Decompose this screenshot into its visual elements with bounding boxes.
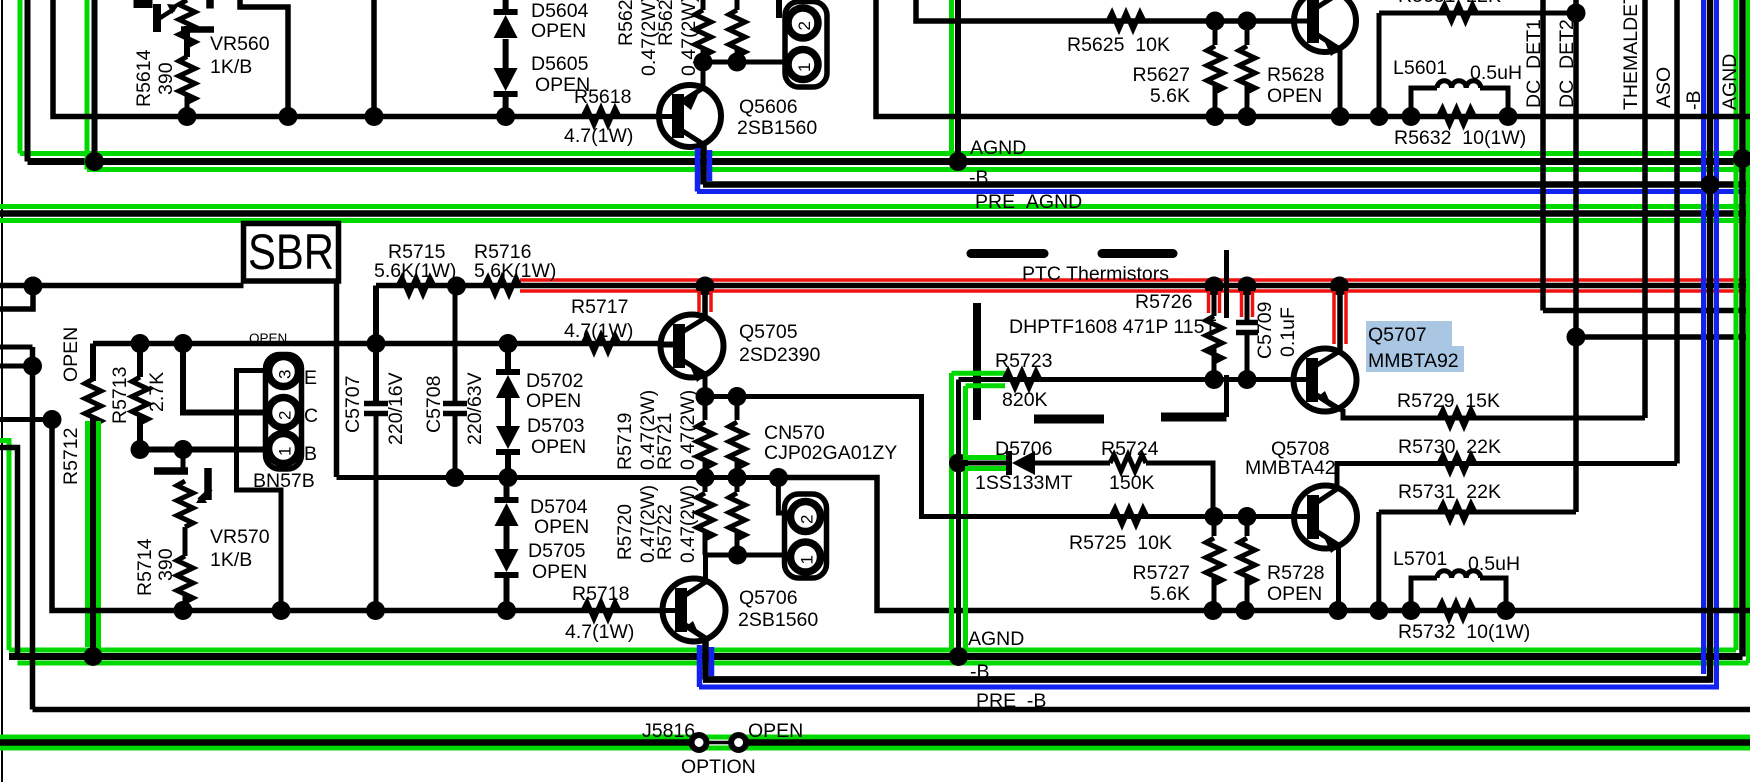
svg-text:1: 1: [795, 63, 814, 72]
svg-text:AGND: AGND: [1719, 54, 1741, 110]
wire emitter rail y396.5: [705, 397, 1295, 517]
svg-text:CJP02GA01ZY: CJP02GA01ZY: [764, 442, 897, 464]
net AGND bottom bus (green/black/green): [9, 648, 1736, 653]
svg-text:R5714: R5714: [134, 538, 156, 596]
resistor R5725: [940, 514, 1112, 519]
net AGND right vertical (green/black/green): [1734, 0, 1739, 650]
svg-text:D5604: D5604: [531, 0, 589, 22]
svg-text:R5614: R5614: [133, 49, 155, 107]
resistor R5722: [735, 478, 740, 493]
resistor R5717: [583, 336, 619, 352]
resistor R5732: [1438, 603, 1474, 619]
wire left stub y417: [0, 417, 52, 422]
connector BN57B 3-pin: [266, 355, 302, 470]
svg-text:D5702: D5702: [526, 370, 583, 392]
svg-text:5.6K: 5.6K: [1150, 85, 1190, 107]
node R5713 top: [131, 334, 150, 353]
transistor Q5705 2SD2390: [661, 315, 724, 378]
wire -B black vertical-to-bottom corner: [703, 0, 1710, 680]
wire VR560 wiper bar: [153, 4, 161, 32]
svg-text:E: E: [304, 367, 317, 389]
svg-text:OPEN: OPEN: [531, 436, 586, 458]
wire mid rail y477.5: [337, 475, 779, 480]
node DC_DET2/R5631 junction: [1567, 4, 1586, 23]
resistor R5723: [1004, 372, 1040, 388]
node D5705/trunk: [497, 601, 516, 620]
svg-text:D5703: D5703: [527, 415, 584, 437]
wire CN570 pin2 branch: [778, 478, 789, 514]
wire Q5705 base bar: [673, 324, 685, 368]
diode D5705: [495, 549, 519, 572]
svg-text:R5730 22K: R5730 22K: [1398, 436, 1501, 458]
svg-text:1: 1: [798, 555, 817, 564]
svg-text:R5719: R5719: [614, 413, 636, 470]
resistor R5631 rail: [1379, 11, 1576, 16]
capacitor C5708: [453, 286, 458, 401]
resistor R5625: [1108, 13, 1144, 29]
svg-text:-B: -B: [969, 167, 989, 189]
net PRE_AGND bus (green/black/green): [0, 204, 1750, 209]
node R5628 top: [1238, 12, 1257, 31]
net -B right vertical (blue/black/blue): [1701, 0, 1706, 674]
diode D5702: [505, 344, 511, 376]
wire AGND left stub (black): [0, 448, 18, 657]
wire D5604-D5605: [503, 39, 509, 68]
svg-text:D5704: D5704: [530, 496, 588, 518]
wire Q5706 emitter diagonal up: [681, 582, 706, 598]
svg-text:OPTION: OPTION: [681, 756, 756, 778]
net DC_DET2 vertical: [1573, 0, 1579, 512]
schematic frame border left: [1, 0, 3, 782]
transistor Q5708 MMBTA42: [1294, 486, 1357, 549]
capacitor C5707: [373, 286, 379, 402]
svg-text:DC_DET1: DC_DET1: [1523, 19, 1545, 108]
svg-text:OPEN: OPEN: [1267, 85, 1322, 107]
resistor R5718: [583, 603, 619, 619]
svg-text:DC_DET2: DC_DET2: [1556, 19, 1578, 108]
potentiometer VR560: [179, 0, 195, 46]
node R5713/pinB: [131, 440, 150, 459]
wire Q5706 collector down to -B bottom: [702, 636, 709, 680]
wire -B blue highlight at Q5706: [697, 645, 703, 687]
svg-text:0.47(2W): 0.47(2W): [677, 390, 699, 470]
resistor R5729: [1439, 410, 1475, 426]
resistor R5730: [1439, 456, 1475, 472]
svg-text:R5718: R5718: [572, 583, 629, 605]
wire branch box upper: [240, 0, 288, 117]
node R5627 bottom: [1206, 107, 1225, 126]
svg-text:L5701: L5701: [1393, 548, 1447, 570]
svg-text:5.6K: 5.6K: [1150, 583, 1190, 605]
node L5601 right: [1499, 107, 1518, 126]
diode D5703: [496, 426, 520, 449]
node C5707/trunk: [366, 601, 385, 620]
capacitor C5709: [1245, 286, 1250, 320]
wire AGND top-mid vertical (green+black): [949, 0, 954, 154]
wire Q5707 base rail with AGND-green drop: [959, 377, 1295, 382]
resistor R5719: [703, 397, 708, 421]
node rail/Q5707: [1330, 277, 1349, 296]
wire SBR box drop: [334, 281, 340, 477]
svg-text:Q5705: Q5705: [739, 321, 798, 343]
node emitter/trunk: [1331, 107, 1350, 126]
svg-text:2: 2: [795, 21, 814, 30]
wire DC_DET2 branch to right edge: [1576, 334, 1750, 340]
node R5731/trunk: [1369, 601, 1388, 620]
svg-text:CN570: CN570: [764, 422, 825, 444]
node VR570 top: [174, 440, 193, 459]
node R5728 top: [1238, 507, 1257, 526]
svg-text:C: C: [304, 405, 318, 427]
PTC thermistor bar B: [1102, 249, 1173, 258]
svg-text:C5708: C5708: [423, 376, 445, 433]
wire AGND top-left vertical pair 2: [85, 0, 90, 170]
node stub2 junction: [43, 410, 62, 429]
net PTC thermistor rail (black with red highlight): [0, 283, 244, 289]
connector top 2-pin: [785, 2, 827, 88]
wire -B blue highlight at Q5606: [695, 148, 701, 192]
node R5727 top: [1205, 507, 1224, 526]
node AGND top-left junction: [85, 152, 104, 171]
svg-text:2: 2: [798, 515, 817, 524]
svg-text:R5628: R5628: [1267, 64, 1324, 86]
wire VR560 top bar: [134, 0, 153, 8]
node C5707 top: [367, 334, 386, 353]
wire VR570 to R5714: [183, 527, 188, 556]
svg-text:390: 390: [155, 548, 177, 581]
svg-text:R5727: R5727: [1133, 562, 1190, 584]
svg-text:2: 2: [276, 411, 295, 420]
wire VR560 to R5614: [184, 26, 190, 57]
svg-text:R5631 22K: R5631 22K: [1398, 0, 1501, 7]
svg-text:R5720: R5720: [615, 504, 636, 560]
node trunk/branch2: [365, 107, 384, 126]
svg-text:R5721: R5721: [654, 413, 676, 470]
node D5703/mid rail: [499, 468, 518, 487]
PTC thermistor foot E: [1161, 413, 1227, 422]
resistor R5614: [179, 57, 195, 103]
svg-text:OPEN: OPEN: [60, 327, 82, 382]
wire top trunk: [53, 0, 661, 117]
svg-text:R5625 10K: R5625 10K: [1067, 34, 1170, 56]
wire Q5606 collector down to -B: [700, 142, 707, 185]
svg-text:5.6K(1W): 5.6K(1W): [474, 260, 556, 282]
inductor L5601: [1411, 88, 1437, 117]
wire Q5604 emitter down: [1338, 46, 1343, 117]
svg-text:1K/B: 1K/B: [210, 549, 252, 571]
node R5628 bottom: [1238, 107, 1257, 126]
svg-text:R5712: R5712: [60, 428, 82, 485]
svg-text:2SB1560: 2SB1560: [737, 117, 817, 139]
svg-text:D5706: D5706: [995, 438, 1052, 460]
svg-text:BN57B: BN57B: [253, 470, 315, 492]
wire Q5705 emitter down: [703, 374, 708, 397]
wire AGND top-left vertical pair 1: [18, 0, 23, 154]
wire Q5606 emitter diagonal: [678, 88, 703, 104]
svg-text:R5726: R5726: [1135, 291, 1192, 313]
wire R5712 to AGND (green highlighted): [85, 421, 90, 647]
wire Q5708 collector to ASO: [1337, 464, 1677, 492]
node rail/R5726: [1205, 277, 1224, 296]
resistor R5715: [398, 278, 434, 294]
transistor Q5604 top right: [1294, 0, 1356, 52]
transistor Q5707 MMBTA92: [1366, 321, 1452, 346]
node R5719 top: [696, 387, 715, 406]
node R5721 top: [728, 387, 747, 406]
wire into top connector pin2: [776, 0, 782, 18]
svg-text:2SD2390: 2SD2390: [739, 344, 820, 366]
svg-text:R5731 22K: R5731 22K: [1398, 481, 1501, 503]
resistor R5712 OPEN: [90, 344, 96, 382]
wire top trunk right segment: [876, 0, 1750, 117]
svg-text:0.47(2W): 0.47(2W): [678, 0, 700, 76]
wire CN570 pin1 rail: [705, 553, 789, 558]
wire R5625 rail: [916, 0, 1295, 21]
svg-text:-B: -B: [970, 661, 990, 683]
thermistor R5726: [1212, 286, 1217, 316]
svg-text:D5705: D5705: [528, 540, 586, 562]
wire Q5706 base bar: [675, 588, 687, 632]
svg-text:R5722: R5722: [655, 504, 676, 560]
wire BN57B pin C branch: [183, 344, 267, 413]
wire vertical branch x374: [371, 0, 377, 117]
node R5715/R5716/C5708: [447, 277, 466, 296]
wire mid rail corner to bottom trunk right: [778, 478, 1750, 611]
wire left stub pair y347/y366: [0, 345, 33, 350]
svg-text:OPEN: OPEN: [532, 561, 587, 583]
node R5726/base rail: [1205, 370, 1224, 389]
node -B junction top: [1701, 175, 1720, 194]
resistor R5716: [484, 278, 520, 294]
wire Q5707 collector to PTC rail (red highlight): [1337, 286, 1343, 352]
svg-text:3: 3: [276, 370, 295, 379]
wire D5704-D5705: [504, 526, 510, 549]
svg-text:R5713: R5713: [109, 367, 131, 424]
resistor R5713: [137, 344, 143, 378]
svg-text:PRE AGND: PRE AGND: [975, 191, 1082, 213]
wire BN57B pin B rail: [136, 447, 267, 453]
wire green highlight right: [963, 386, 968, 650]
svg-text:R5620: R5620: [615, 0, 637, 46]
svg-text:D5605: D5605: [531, 53, 589, 75]
node R5719 bottom: [696, 468, 715, 487]
node R5620/emitter: [694, 53, 713, 72]
net DC_DET1 vertical: [1540, 0, 1546, 311]
inductor L5701: [1411, 578, 1437, 611]
svg-text:OPEN: OPEN: [534, 516, 589, 538]
wire Q5707 emitter diagonal: [1312, 392, 1343, 411]
svg-text:C5709: C5709: [1254, 302, 1276, 359]
svg-text:2SB1560: 2SB1560: [738, 609, 818, 631]
svg-text:AGND: AGND: [968, 628, 1024, 650]
svg-text:MMBTA92: MMBTA92: [1368, 350, 1459, 372]
svg-text:VR570: VR570: [210, 526, 270, 548]
node CN570 pin2 branch: [769, 468, 788, 487]
wire Q5604 base bar: [1307, 0, 1319, 43]
transistor Q5606 2SB1560: [659, 85, 721, 147]
wire Q5705 emitter diagonal: [679, 358, 705, 374]
svg-text:AGND: AGND: [970, 137, 1026, 159]
svg-text:PTC Thermistors: PTC Thermistors: [1022, 263, 1169, 285]
svg-text:R5632 10(1W): R5632 10(1W): [1394, 127, 1526, 149]
svg-text:B: B: [304, 443, 317, 465]
wire Q5606 emitter up: [701, 62, 706, 90]
wire Q5708 collector diagonal: [1313, 489, 1337, 505]
svg-text:1SS133MT: 1SS133MT: [975, 472, 1073, 494]
svg-text:0.5uH: 0.5uH: [1468, 553, 1520, 575]
svg-text:ASO: ASO: [1653, 67, 1675, 108]
svg-text:R5725 10K: R5725 10K: [1069, 532, 1172, 554]
svg-text:OPEN: OPEN: [526, 390, 581, 412]
transistor Q5706 2SB1560: [663, 579, 726, 642]
node R5625/R5627: [1206, 12, 1225, 31]
connector CN570 2-pin: [785, 494, 827, 578]
wire D5702-D5703: [505, 398, 511, 426]
svg-text:1: 1: [276, 447, 295, 456]
net ASO vertical: [1674, 0, 1680, 464]
wire Q5707 emitter to THEMALDET: [1343, 409, 1645, 418]
wire emitter rail y62: [703, 60, 789, 65]
svg-text:0.5uH: 0.5uH: [1470, 62, 1522, 84]
node C5708/mid rail: [446, 468, 465, 487]
resistor R5714: [177, 556, 193, 602]
svg-text:J5816: J5816: [642, 720, 695, 742]
wire AGND left stub (green): [0, 441, 9, 651]
svg-text:OPEN: OPEN: [1267, 583, 1322, 605]
resistor R5631: [1441, 5, 1477, 21]
node rail left junction: [24, 277, 43, 296]
wire Q5707 collector diagonal: [1312, 351, 1340, 368]
node R5722/pin1: [728, 546, 747, 565]
svg-text:R5732 10(1W): R5732 10(1W): [1398, 621, 1530, 643]
node D5702 top: [499, 334, 518, 353]
node L5701 left: [1402, 601, 1421, 620]
svg-text:VR560: VR560: [210, 33, 270, 55]
svg-text:220/63V: 220/63V: [464, 372, 486, 445]
net -B top bus (black + blue): [703, 181, 1750, 188]
node L5701 right: [1497, 601, 1516, 620]
block SBR label box: [244, 224, 339, 282]
svg-text:R5724: R5724: [1101, 438, 1159, 460]
resistor R5620: [701, 0, 706, 10]
svg-text:220/16V: 220/16V: [385, 372, 407, 445]
resistor R5731: [1379, 510, 1576, 515]
node AGND top-mid junction: [949, 152, 968, 171]
svg-text:-B: -B: [1683, 91, 1705, 111]
svg-text:0.47(2W): 0.47(2W): [678, 485, 699, 563]
diode D5706 1SS133MT: [1012, 451, 1035, 475]
svg-text:0.1uF: 0.1uF: [1277, 307, 1299, 357]
wire Q5708 emitter down: [1336, 543, 1341, 611]
node R5714/trunk: [174, 601, 193, 620]
diode D5604: [494, 15, 518, 38]
resistor R5628: [1245, 21, 1250, 45]
svg-text:1K/B: 1K/B: [210, 56, 252, 78]
diode D5704: [504, 478, 510, 504]
wire R5724 to base rail: [1146, 463, 1213, 517]
net OPTION bottom bus (green/black/green): [0, 735, 1750, 740]
svg-text:4.7(1W): 4.7(1W): [564, 125, 633, 147]
svg-text:L5601: L5601: [1393, 57, 1447, 79]
potentiometer VR570: [181, 450, 186, 469]
node R5622: [728, 53, 747, 72]
node L5601 left: [1402, 107, 1421, 126]
resistor R5632: [1439, 109, 1475, 125]
resistor R5618: [583, 109, 619, 125]
wire PTC line through R5726 upper: [1224, 250, 1229, 318]
svg-text:390: 390: [155, 62, 177, 95]
wire PTC line through R5726 lower: [1224, 375, 1229, 417]
node AGND junction right: [1733, 149, 1750, 168]
resistor R5728: [1245, 517, 1250, 537]
wire Q5705 collector to PTC rail (red highlight): [702, 286, 708, 317]
svg-text:R5723: R5723: [995, 350, 1052, 372]
node trunk/branch: [279, 107, 298, 126]
net AGND top bus (green/black/green): [20, 151, 1750, 156]
node Q5708 emitter/trunk: [1329, 601, 1348, 620]
wire Q5708 emitter diagonal: [1313, 529, 1339, 545]
wire VR560 top terminal stub: [206, 0, 214, 9]
svg-text:R5622: R5622: [655, 0, 677, 46]
svg-text:R5618: R5618: [574, 86, 631, 108]
node R5631 branch: [1370, 107, 1389, 126]
node rail/C5709: [1238, 277, 1257, 296]
svg-text:5.6K(1W): 5.6K(1W): [374, 260, 456, 282]
svg-text:SBR: SBR: [248, 224, 334, 280]
wire Q5708 base bar: [1307, 495, 1319, 539]
jumper J5816: [699, 741, 739, 745]
wire R5614 to trunk: [185, 97, 190, 117]
wire Q5705 collector diagonal: [679, 318, 705, 334]
node pinC branch: [174, 334, 193, 353]
node R5721 bottom: [728, 468, 747, 487]
svg-text:PRE -B: PRE -B: [976, 690, 1046, 712]
svg-text:R5728: R5728: [1267, 562, 1324, 584]
svg-text:C5707: C5707: [342, 376, 364, 433]
svg-text:Q5706: Q5706: [739, 587, 798, 609]
wire Q5707 base bar: [1306, 358, 1318, 402]
wire DC_DET1 to right edge: [1543, 308, 1750, 314]
net THEMALDET vertical: [1642, 0, 1648, 418]
node AGND bottom junction: [949, 647, 968, 666]
wire VR570 wiper bar: [204, 468, 212, 500]
svg-text:DHPTF1608 471P 115T: DHPTF1608 471P 115T: [1009, 316, 1216, 338]
node D5706 branch: [949, 454, 968, 473]
svg-text:OPEN: OPEN: [531, 20, 586, 42]
PTC thermistor temp line C: [973, 303, 981, 420]
svg-text:R5627: R5627: [1133, 64, 1190, 86]
wire SBR rail y286 jog at left: [0, 286, 33, 309]
svg-text:150K: 150K: [1109, 472, 1155, 494]
svg-text:820K: 820K: [1002, 389, 1048, 411]
diode D5605: [494, 68, 518, 91]
node rail/Q5705: [696, 277, 715, 296]
svg-text:2.7K: 2.7K: [146, 372, 168, 412]
resistor R5721: [735, 397, 740, 421]
wire bottom trunk: [52, 420, 661, 611]
PTC thermistor bar A: [971, 249, 1044, 258]
wire green highlight left: [949, 373, 954, 650]
PTC thermistor foot D: [1034, 415, 1104, 424]
svg-text:Q5707: Q5707: [1368, 324, 1427, 346]
node R5728 bottom: [1236, 601, 1255, 620]
wire Q5604 emitter diagonal: [1313, 32, 1338, 48]
resistor R5627: [1213, 21, 1218, 45]
node DC_DET2 junction: [1567, 328, 1586, 347]
wire Q5606 collector diagonal: [678, 128, 703, 144]
node trunk/D5605: [496, 107, 515, 126]
node pinE/trunk: [272, 601, 291, 620]
